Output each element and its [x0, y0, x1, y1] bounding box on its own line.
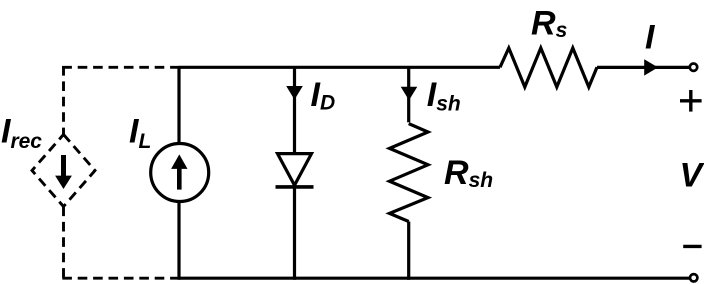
wire: diode branch upper [293, 66, 296, 154]
wire: Rsh branch lower [407, 222, 410, 280]
wire: dashed left segment below Irec diamond [62, 207, 65, 279]
arrow inside IL source [171, 154, 187, 189]
arrow: Ish current direction [401, 87, 418, 101]
svg-text:I: I [645, 19, 656, 57]
svg-text:IL: IL [129, 113, 151, 153]
dependent current source Irec (dashed diamond) [32, 135, 95, 207]
wire: dashed bottom segment from Irec source to bottom node [62, 277, 178, 280]
current source IL (circle) [151, 144, 209, 202]
bottom wire [179, 277, 690, 280]
arrow: ID current direction [286, 86, 303, 100]
svg-text:Rs: Rs [531, 5, 567, 43]
svg-text:Ish: Ish [427, 76, 461, 115]
plus sign [680, 90, 702, 112]
wire: IL branch upper [177, 66, 180, 144]
svg-text:V: V [680, 157, 704, 195]
wire: dashed top segment from Irec source to node A [62, 66, 178, 69]
diode D [276, 154, 314, 187]
wire: Rs to output terminal [597, 66, 690, 69]
resistor Rsh (zigzag) [390, 124, 429, 222]
terminal + (top right open circle) [690, 63, 697, 70]
arrow: output current I [644, 59, 658, 75]
top wire (node between IL, diode, Rsh and Rs) [179, 66, 500, 69]
resistor Rs (zigzag) [500, 48, 597, 87]
wire: diode branch lower [293, 187, 296, 280]
svg-text:Irec: Irec [1, 113, 42, 153]
terminal - (bottom right open circle) [690, 274, 697, 281]
svg-text:ID: ID [311, 76, 336, 114]
wire: IL branch lower [177, 202, 180, 280]
minus sign [683, 245, 701, 248]
wire: dashed left segment above Irec diamond [62, 66, 65, 135]
arrow inside Irec source [55, 155, 72, 189]
svg-text:Rsh: Rsh [444, 154, 493, 192]
wire: Rsh branch upper [407, 66, 410, 122]
